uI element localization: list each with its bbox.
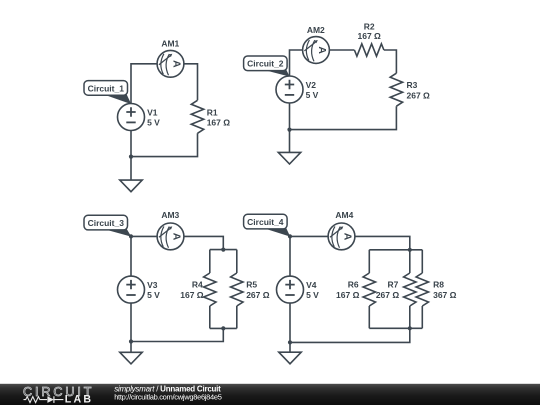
svg-text:267 Ω: 267 Ω xyxy=(376,290,400,300)
footer bar xyxy=(0,384,540,405)
svg-text:R4: R4 xyxy=(192,280,203,290)
junction circuit3 ground node xyxy=(129,339,133,343)
wire R4 bottom stub xyxy=(209,306,211,328)
junction circuit4 callout node xyxy=(288,234,292,238)
svg-text:167 Ω: 167 Ω xyxy=(207,117,231,127)
svg-text:AM1: AM1 xyxy=(161,38,179,48)
wire V4 bottom to ground xyxy=(289,303,291,352)
wire V2 bottom to ground xyxy=(289,103,291,152)
ground circuit 2 xyxy=(278,152,300,164)
wire V2 top to AM2 (node A2) xyxy=(290,50,303,76)
callout label Circuit_2 xyxy=(244,56,290,77)
svg-text:267 Ω: 267 Ω xyxy=(407,91,431,101)
wire R8 top stub xyxy=(421,250,423,273)
svg-text:V4: V4 xyxy=(306,280,317,290)
svg-text:AM4: AM4 xyxy=(335,210,353,220)
junction circuit2 ground node xyxy=(287,128,291,132)
svg-text:5 V: 5 V xyxy=(147,117,160,127)
resistor R6 body xyxy=(363,273,375,306)
svg-text:A: A xyxy=(170,60,181,68)
ground circuit 4 xyxy=(279,352,301,364)
svg-text:A: A xyxy=(316,46,327,54)
callout label Circuit_1 xyxy=(84,81,131,105)
resistor R1 body xyxy=(191,100,203,133)
ammeter AM2 xyxy=(303,37,330,64)
voltage source V3 xyxy=(118,276,145,303)
resistor R4 body xyxy=(204,273,216,306)
svg-text:http://circuitlab.com/cwjwg8e6: http://circuitlab.com/cwjwg8e6j84e5 xyxy=(114,393,222,402)
wire parallel to ground wire c4 xyxy=(290,328,410,342)
resistor R8 body xyxy=(416,273,428,306)
wire R8 bottom stub xyxy=(421,306,423,328)
svg-text:AM3: AM3 xyxy=(161,210,179,220)
wire parallel bottom bar c4 xyxy=(369,327,422,329)
resistor R5 body xyxy=(231,273,243,306)
svg-text:167 Ω: 167 Ω xyxy=(358,31,382,41)
wire V3 top to AM3 (node A3) xyxy=(131,236,157,276)
voltage source V2 xyxy=(276,76,303,103)
wire parallel bottom bar c3 xyxy=(210,327,237,329)
ammeter AM3 xyxy=(157,223,184,250)
svg-text:Circuit_3: Circuit_3 xyxy=(88,218,125,228)
junction circuit1 ground node xyxy=(129,155,133,159)
svg-text:R8: R8 xyxy=(433,280,444,290)
wire R4 top stub xyxy=(209,250,211,273)
svg-text:V3: V3 xyxy=(147,280,158,290)
wire R2 right to R3 top xyxy=(384,50,397,73)
svg-text:5 V: 5 V xyxy=(306,90,319,100)
wire AM1 to R1 top xyxy=(184,64,198,101)
wire R6 bottom stub xyxy=(368,306,370,328)
wire parallel to ground wire c3 xyxy=(131,328,223,341)
wire V1 bottom to ground xyxy=(130,131,132,181)
resistor R3 body xyxy=(390,73,402,106)
svg-text:267 Ω: 267 Ω xyxy=(246,290,270,300)
callout label Circuit_3 xyxy=(84,215,131,236)
wire AM4 to parallel top xyxy=(355,236,410,249)
wire R5 top stub xyxy=(236,250,238,273)
svg-text:A: A xyxy=(341,233,352,241)
wire V4 top to AM4 (node A4) xyxy=(290,236,328,276)
wire V1 top to AM1 (node A1) xyxy=(131,64,157,104)
junction circuit4 bottom node xyxy=(408,326,412,330)
svg-text:AM2: AM2 xyxy=(307,25,325,35)
ground circuit 1 xyxy=(120,180,142,192)
svg-text:Circuit_1: Circuit_1 xyxy=(88,83,125,93)
ammeter AM4 xyxy=(328,223,355,250)
ground circuit 3 xyxy=(120,352,142,364)
svg-text:Circuit_4: Circuit_4 xyxy=(247,217,284,227)
svg-text:5 V: 5 V xyxy=(306,290,319,300)
wire R3 bottom to ground node xyxy=(290,106,397,129)
svg-text:V1: V1 xyxy=(147,107,158,117)
wire R1 bottom to ground node xyxy=(131,133,198,156)
resistor R7 body xyxy=(404,273,416,306)
wire parallel top bar c4 xyxy=(369,249,422,251)
svg-text:R5: R5 xyxy=(246,280,257,290)
ammeter AM1 xyxy=(157,50,184,77)
svg-text:V2: V2 xyxy=(306,80,317,90)
wire R5 bottom stub xyxy=(236,306,238,328)
wire R6 top stub xyxy=(368,250,370,273)
wire R7 top stub xyxy=(409,250,411,273)
junction circuit4 top node xyxy=(408,248,412,252)
voltage source V4 xyxy=(277,276,304,303)
wire AM2 to R2 left xyxy=(329,49,354,51)
wire R7 bottom stub xyxy=(409,306,411,328)
resistor R2 body xyxy=(354,44,384,56)
svg-text:167 Ω: 167 Ω xyxy=(336,290,360,300)
logo resistor-diode glyph xyxy=(24,397,64,403)
svg-text:LAB: LAB xyxy=(65,394,93,405)
wire parallel top bar c3 xyxy=(210,249,237,251)
svg-text:R3: R3 xyxy=(407,80,418,90)
svg-text:367 Ω: 367 Ω xyxy=(433,290,457,300)
svg-text:R1: R1 xyxy=(207,107,218,117)
svg-text:Circuit_2: Circuit_2 xyxy=(247,59,284,69)
svg-text:167 Ω: 167 Ω xyxy=(180,290,204,300)
voltage source V1 xyxy=(118,104,145,131)
svg-text:R7: R7 xyxy=(388,280,399,290)
svg-text:R6: R6 xyxy=(348,280,359,290)
callout label Circuit_4 xyxy=(244,214,291,236)
junction circuit4 ground node xyxy=(288,340,292,344)
wire AM3 to parallel top xyxy=(184,236,223,249)
junction circuit3 top node xyxy=(221,248,225,252)
svg-text:A: A xyxy=(170,233,181,241)
wire V3 bottom to ground xyxy=(130,303,132,352)
svg-text:5 V: 5 V xyxy=(147,290,160,300)
junction circuit3 callout node xyxy=(129,234,133,238)
junction circuit3 bottom node xyxy=(221,326,225,330)
